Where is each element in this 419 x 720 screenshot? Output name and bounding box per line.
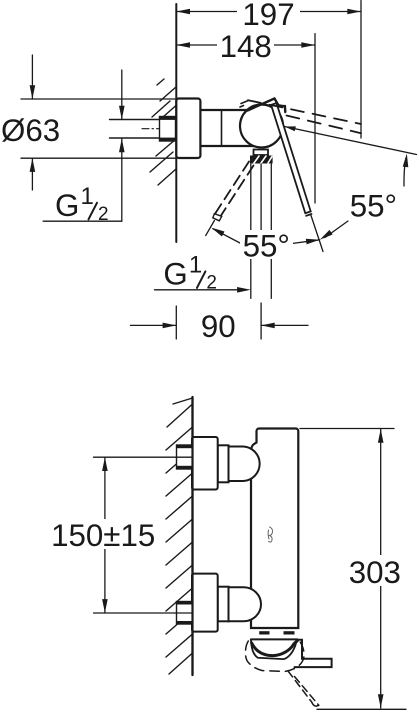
dimension 303 extension lines (300, 428, 394, 430)
extension line right for 148 (314, 34, 316, 203)
connection nut bottom (218, 587, 229, 622)
svg-text:303: 303 (349, 555, 401, 590)
body joint line (221, 110, 223, 146)
union hex nut (side view) (160, 117, 176, 142)
handle phantom dashed outline (245, 641, 304, 671)
G1/2 label left underline (43, 220, 122, 222)
outlet centerline upper (260, 164, 262, 231)
lever bar end face second line (306, 214, 311, 216)
handle step and bar (295, 640, 332, 667)
dashed lever down end outline (213, 214, 222, 221)
svg-text:Ø63: Ø63 (1, 113, 60, 148)
svg-text:90: 90 (201, 309, 236, 344)
svg-text:197: 197 (242, 0, 294, 32)
D63 bottom arrow (30, 158, 36, 190)
G1/2 label 2 (outlet) (163, 251, 217, 293)
G1/2 outlet leader with arrow (155, 287, 251, 293)
lever axis extension line (solid lever) (311, 214, 324, 252)
middle 55-deg left arc arrow (211, 228, 240, 243)
handle boat outline (251, 639, 297, 659)
outlet hatched band (250, 156, 273, 164)
cartridge housing circle (240, 105, 283, 148)
dimension 90 (131, 309, 309, 344)
middle 55-deg right arc arrow (292, 239, 320, 245)
handle smile curve (252, 641, 298, 656)
svg-text:2: 2 (98, 204, 109, 225)
wall face line (front view) (191, 397, 193, 675)
wall face line re-stroke (191, 397, 193, 675)
escutcheon (side view) (176, 99, 200, 159)
hex nut top (behind wall) (177, 445, 193, 469)
dashed lever up position edge 2 (287, 116, 362, 134)
dashed lever pointing down (front view) (288, 671, 312, 702)
thread G1/2 top arrow (119, 70, 125, 120)
outlet centerline lower (260, 303, 262, 339)
connection nut top (218, 445, 229, 482)
extension line for 90 at wall (175, 306, 177, 339)
dimension 150+-15 (50, 457, 157, 613)
svg-text:55°: 55° (350, 189, 397, 224)
wall face line / left extension line (175, 4, 177, 242)
svg-text:2: 2 (206, 273, 217, 294)
thread G1/2 bottom arrow + leader down (119, 139, 125, 222)
dashed lever axis extension (lower left) (206, 221, 215, 236)
connection cap bottom (bulge) (229, 587, 262, 621)
middle 55-deg text (240, 228, 293, 263)
svg-text:55°: 55° (243, 228, 290, 263)
svg-text:148: 148 (220, 29, 272, 64)
dimension D63 extension lines (21, 98, 176, 100)
G1/2 label left (55, 183, 109, 225)
svg-text:G: G (55, 188, 79, 223)
lever cap (solid) (248, 99, 286, 113)
supply pipe thread lines (110, 119, 160, 121)
dimension 148 (176, 29, 315, 64)
right 55-deg lower arc arrow (320, 221, 348, 240)
GROHE logo mark (268, 527, 272, 542)
handle top edge (251, 638, 298, 640)
wall hatching (top view) (150, 79, 176, 185)
extension line right for 197 (360, 1, 362, 139)
pipe centerline (142, 128, 176, 130)
lever bar (solid, closed position) (271, 103, 311, 213)
svg-text:1: 1 (81, 183, 94, 210)
D63 top arrow (30, 55, 36, 99)
dimension 150+-15 extension lines (94, 456, 193, 458)
right 55-deg leader line L1 (285, 127, 417, 155)
body bottom thick bars (259, 631, 269, 634)
dashed lever down-left position (215, 162, 249, 215)
body (front view) (251, 429, 298, 629)
svg-text:1: 1 (189, 251, 202, 278)
escutcheon top (front view) (192, 437, 218, 490)
outlet extension line left (250, 164, 252, 298)
outlet retainer rect (254, 150, 269, 156)
L1 arrowhead (285, 126, 296, 131)
hex nut bottom (behind wall) (177, 602, 193, 625)
svg-text:G: G (163, 256, 187, 291)
dimension 197 (176, 0, 361, 32)
right 55-deg upper arc arrow (403, 154, 409, 187)
wall hatching (front view) (166, 398, 193, 674)
dashed lever cap (rotated position) (241, 100, 249, 103)
svg-text:150±15: 150±15 (51, 518, 155, 553)
connection cap top (bulge) (229, 447, 260, 482)
escutcheon bottom (front view) (192, 574, 218, 632)
outlet extension line right (270, 164, 272, 298)
body cylinder (200, 109, 249, 111)
dashed lever up position edge 1 (248, 100, 361, 124)
dimension 303 (348, 429, 401, 708)
